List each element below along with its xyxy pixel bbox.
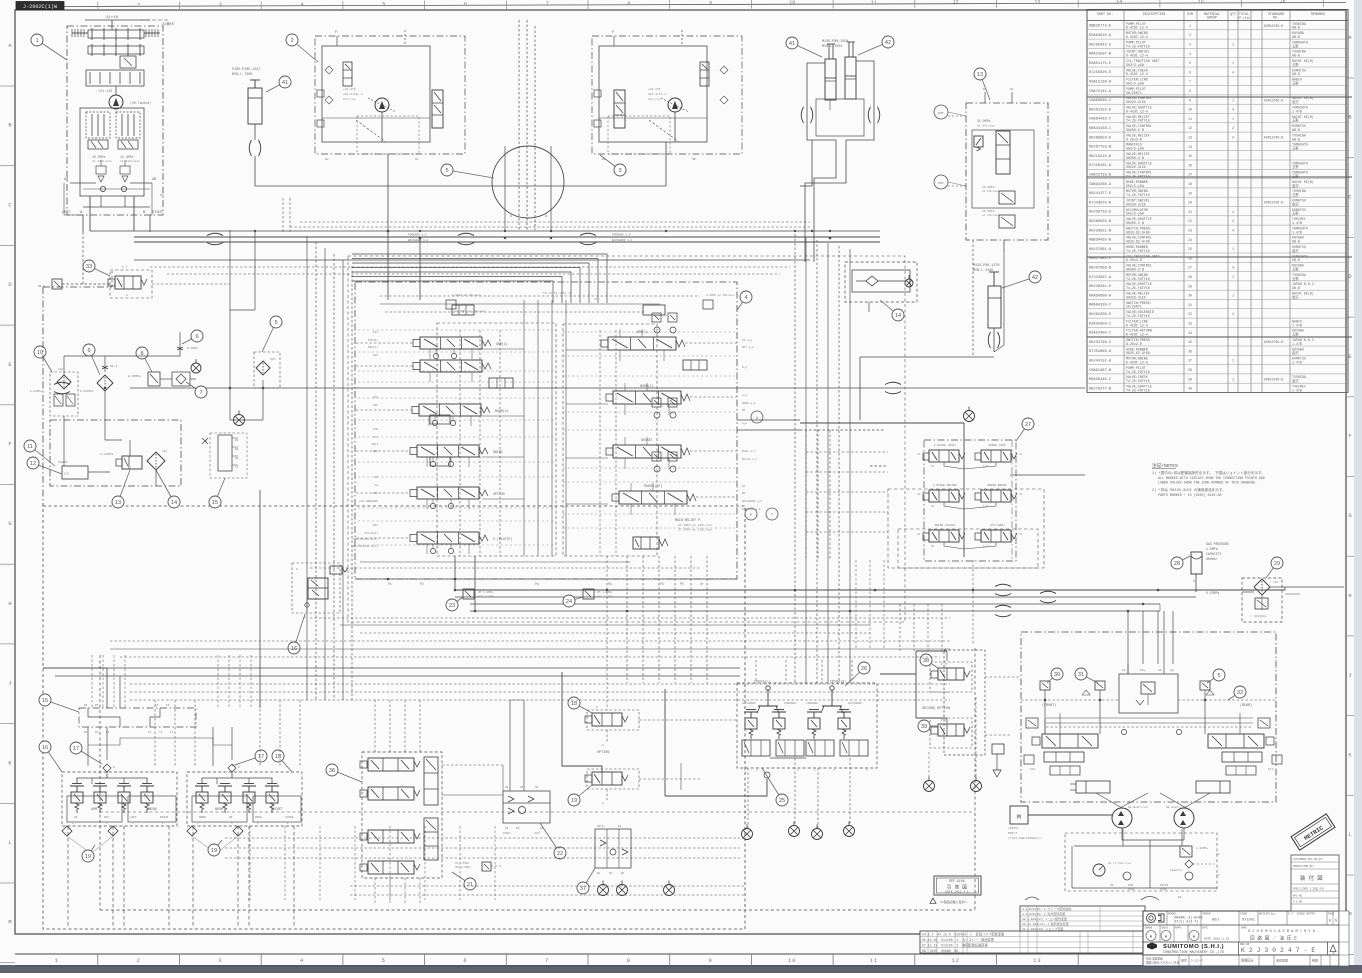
svg-text:SH200-3 B: SH200-3 B	[1126, 221, 1144, 225]
svg-text:金沢: 金沢	[1292, 378, 1299, 383]
svg-text:KBJ33796-C: KBJ33796-C	[1089, 341, 1112, 345]
top-left drawing number box	[16, 2, 64, 11]
node callout 9	[83, 344, 100, 375]
svg-text:11: 11	[1188, 118, 1192, 122]
svg-text:CNA60566-C: CNA60566-C	[1089, 99, 1112, 103]
engine M box	[1008, 806, 1112, 840]
svg-text:SWING LOCK: SWING LOCK	[988, 444, 1006, 447]
svg-text:B2: B2	[325, 158, 329, 161]
svg-text:CNA91487-B: CNA91487-B	[1089, 369, 1112, 373]
svg-text:10A: 10A	[1273, 581, 1279, 584]
svg-text:05.10.26 K11106 1 カースレー・部品変: 05.10.26 K11106 1 カースレー・部品変更	[922, 937, 995, 942]
gauge check box 21	[455, 862, 503, 871]
svg-text:18: 18	[571, 701, 577, 707]
svg-text:T4-25-F9TY10: T4-25-F9TY10	[1126, 379, 1150, 383]
svg-text:AUX: AUX	[373, 354, 378, 357]
svg-text:金沢: 金沢	[1292, 183, 1299, 188]
wire pedal risers	[748, 758, 850, 828]
svg-text:PA5(B): PA5(B)	[368, 338, 378, 342]
svg-text:8: 8	[627, 958, 631, 964]
wire second option feed	[880, 651, 947, 723]
svg-text:C2: C2	[1019, 493, 1023, 496]
svg-text:16: 16	[1279, 0, 1285, 5]
svg-text:2-STAGE (RMV): 2-STAGE (RMV)	[934, 443, 957, 447]
svg-text:(SH.Tandem): (SH.Tandem)	[130, 101, 151, 105]
svg-text:at 85L/min: at 85L/min	[977, 124, 995, 128]
svg-text:7: 7	[1189, 81, 1191, 85]
svg-text:3M 1.0MPa: 3M 1.0MPa	[478, 591, 493, 594]
node callout 6	[182, 330, 203, 344]
svg-text:3M 1.0MPa: 3M 1.0MPa	[597, 591, 612, 594]
svg-text:KHJ44151-A: KHJ44151-A	[1089, 360, 1112, 364]
filter 9 with orifice	[97, 363, 117, 391]
svg-text:KRA64609-A: KRA64609-A	[1089, 294, 1112, 298]
svg-text:1: 1	[35, 38, 38, 44]
svg-text:Ba3: Ba3	[373, 524, 378, 527]
svg-text:DATE 2021.1.31: DATE 2021.1.31	[1204, 938, 1229, 941]
wire MCV center gallery	[460, 300, 616, 556]
parts list table	[1087, 10, 1352, 393]
svg-text:KBJ69853-E: KBJ69853-E	[1089, 136, 1112, 140]
grid row labels right	[1346, 35, 1354, 955]
svg-text:A4: A4	[505, 786, 509, 789]
svg-text:P2: P2	[95, 731, 99, 734]
svg-text:PAT: PAT	[938, 182, 944, 185]
svg-text:SWING CH/OFF: SWING CH/OFF	[935, 523, 956, 527]
svg-text:P: P	[750, 513, 752, 517]
svg-text:P (T: P (T	[941, 662, 948, 666]
svg-text:金沢: 金沢	[1292, 99, 1299, 104]
svg-text:at 212L/min: at 212L/min	[120, 159, 140, 163]
svg-text:FORWARD: FORWARD	[784, 702, 796, 705]
node callout 8	[136, 347, 152, 372]
boundary main control valve box	[355, 282, 737, 579]
svg-text:五野: 五野	[1292, 81, 1299, 86]
svg-text:CODE: CODE	[1240, 913, 1247, 916]
svg-text:MFG NO.: MFG NO.	[1293, 895, 1304, 898]
svg-text:UP: UP	[742, 409, 746, 412]
svg-text:KTJ55020-E: KTJ55020-E	[1089, 71, 1112, 75]
wire drain vertical left	[259, 490, 261, 708]
svg-text:PAGE: PAGE	[1328, 913, 1335, 916]
svg-text:4: 4	[1232, 267, 1234, 271]
check valve 6	[177, 344, 198, 356]
svg-text:42: 42	[1032, 275, 1038, 281]
svg-text:502/5-y5A: 502/5-y5A	[1126, 82, 1144, 86]
travel motor front	[1112, 808, 1132, 828]
MCV left bank small valves	[430, 305, 513, 466]
svg-text:DWG.NO: DWG.NO	[1240, 943, 1250, 946]
svg-text:MA: MA	[415, 158, 419, 161]
svg-text:S7(2) 3(3-T): S7(2) 3(3-T)	[1174, 920, 1198, 925]
svg-text:300cm³: 300cm³	[1206, 557, 1218, 561]
wire center verticals to pedals	[627, 556, 707, 683]
svg-text:(T)21.4kW/2150min⁻¹: (T)21.4kW/2150min⁻¹	[1008, 836, 1042, 840]
svg-text:B7: B7	[742, 485, 746, 488]
svg-text:RIGHT: RIGHT	[503, 832, 511, 835]
svg-text:K 2 J 3 0 2 4 7 - E: K 2 J 3 0 2 4 7 - E	[1241, 947, 1315, 954]
node callout 19	[82, 845, 95, 862]
svg-text:管理区分: 管理区分	[1241, 958, 1255, 963]
svg-text:KHJ39733-E: KHJ39733-E	[1089, 211, 1112, 215]
wire main pump buses	[90, 231, 880, 245]
svg-text:K-4C9C 12-4: K-4C9C 12-4	[1126, 361, 1148, 365]
svg-text:25.9MPa: 25.9MPa	[982, 210, 995, 213]
svg-text:5: 5	[1189, 62, 1191, 66]
svg-text:23: 23	[449, 603, 455, 609]
node callout 42	[858, 36, 894, 55]
svg-text:A1: A1	[1122, 669, 1126, 672]
second option valve lower	[930, 718, 972, 748]
filter 5 line	[254, 352, 280, 388]
svg-text:K-4C9C 12-4: K-4C9C 12-4	[1126, 26, 1148, 30]
wire travel-pedal feeds	[681, 660, 852, 790]
svg-text:1-47B: 1-47B	[1292, 342, 1302, 346]
svg-text:KBJ76277-B: KBJ76277-B	[1089, 387, 1112, 391]
svg-text:32.4MPa: 32.4MPa	[120, 155, 133, 159]
travel pedal valves 25	[665, 679, 877, 796]
svg-text:L: L	[8, 840, 11, 846]
svg-text:金沢: 金沢	[1292, 248, 1299, 253]
svg-text:Pb1(Pa1): Pb1(Pa1)	[365, 531, 379, 535]
svg-text:15: 15	[42, 698, 48, 704]
svg-text:17: 17	[258, 754, 264, 760]
svg-text:246.3/14L-1: 246.3/14L-1	[343, 92, 363, 96]
svg-text:5: 5	[382, 958, 386, 964]
svg-text:J: J	[1348, 673, 1351, 679]
svg-text:9: 9	[708, 958, 712, 964]
svg-text:GROUP: GROUP	[1207, 17, 1217, 21]
svg-text:CLOSE: CLOSE	[285, 816, 294, 819]
svg-text:≈ 1016kPa: ≈ 1016kPa	[1250, 614, 1266, 618]
svg-text:KNJ41377-E: KNJ41377-E	[1089, 192, 1112, 196]
svg-text:AB-B: AB-B	[1292, 286, 1300, 290]
boundary MCV inner left	[437, 323, 556, 556]
svg-text:E3: E3	[1178, 896, 1182, 899]
svg-text:23: 23	[1188, 230, 1192, 234]
svg-text:15: 15	[212, 500, 218, 506]
svg-text:0625-62-9+99: 0625-62-9+99	[1126, 230, 1150, 234]
svg-text:37: 37	[1188, 360, 1192, 364]
svg-text:10A: 10A	[58, 368, 63, 371]
svg-text:KNJ37661-A: KNJ37661-A	[1089, 248, 1112, 252]
wire mid risers to bank36	[375, 700, 503, 795]
arm cylinder right	[973, 264, 1001, 352]
svg-text:A2: A2	[1170, 669, 1174, 672]
node callout 2	[286, 34, 318, 62]
svg-text:13: 13	[1033, 958, 1041, 964]
svg-text:A3: A3	[1216, 874, 1220, 877]
pilot manifold 35	[202, 433, 247, 478]
node callout 16	[288, 614, 305, 654]
thermo box	[58, 461, 110, 479]
svg-text:P.(DELETE): P.(DELETE)	[493, 537, 512, 541]
svg-text:KBB29772-E: KBB29772-E	[1089, 25, 1112, 29]
svg-text:APPR.: APPR.	[1175, 927, 1182, 930]
node callout 25	[762, 768, 788, 806]
pilot pump assembly 2	[315, 30, 465, 161]
wire travel riser bundle	[1128, 611, 1173, 674]
svg-text:SECOND OPTION: SECOND OPTION	[922, 707, 950, 711]
svg-text:GROUP: GROUP	[1202, 913, 1211, 916]
svg-text:XAb1(B)SOL.B(Y): XAb1(B)SOL.B(Y)	[353, 537, 378, 541]
wire MCV feed verticals	[388, 231, 800, 611]
svg-text:a3: a3	[1216, 853, 1220, 856]
svg-text:3: 3	[618, 168, 621, 174]
svg-text:35.9MPa: 35.9MPa	[977, 119, 990, 123]
svg-text:KHR10766-B: KHR10766-B	[1264, 24, 1283, 28]
svg-text:1: 1	[1232, 360, 1234, 364]
svg-text:S5: S5	[520, 786, 524, 789]
wire return capsules	[885, 382, 901, 394]
svg-text:1: 1	[1232, 118, 1234, 122]
svg-text:DRAWN: DRAWN	[1145, 927, 1153, 930]
node callout 19	[208, 840, 222, 856]
svg-text:SH200-3 B: SH200-3 B	[1126, 268, 1144, 272]
node callout 10	[34, 346, 52, 372]
svg-text:AB-B: AB-B	[1292, 258, 1300, 262]
svg-text:Pb8: Pb8	[373, 395, 378, 399]
svg-text:KSA35656-C: KSA35656-C	[1089, 322, 1112, 326]
svg-text:0.03MPa: 0.03MPa	[30, 390, 42, 393]
MCV left bank valves	[410, 337, 512, 544]
svg-text:SH220-3LEX: SH220-3LEX	[1126, 165, 1146, 169]
boundary pilot outer left leg	[43, 287, 112, 506]
svg-text:1-47B: 1-47B	[1292, 323, 1302, 327]
boom cylinders	[801, 40, 880, 140]
svg-text:LEFT: LEFT	[62, 211, 71, 215]
svg-text:DATE: DATE	[1202, 927, 1208, 930]
breather mid	[191, 359, 201, 373]
svg-text:60J: 60J	[1212, 919, 1219, 923]
svg-text:22: 22	[1188, 220, 1192, 224]
wire right area verticals	[900, 560, 973, 651]
wire pilot bus to right	[455, 584, 1285, 617]
svg-text:STR: STR	[270, 358, 275, 361]
svg-text:21+10: 21+10	[106, 16, 119, 20]
svg-text:1: 1	[1232, 378, 1234, 382]
svg-text:K-4C9C 12-4: K-4C9C 12-4	[1126, 72, 1148, 76]
MCV relief small top	[446, 291, 735, 313]
wire bottom dashed laterals	[225, 826, 745, 905]
wire travel box cross lines	[1045, 718, 1253, 735]
svg-text:KHR10766-B: KHR10766-B	[1264, 136, 1283, 140]
svg-text:TRAVEL(L): TRAVEL(L)	[754, 679, 770, 683]
boundary travel unit box	[1021, 632, 1276, 802]
travel brake cylinders	[1070, 781, 1230, 793]
breather pilot area	[234, 411, 245, 426]
joystick unit right (boom/bucket)	[187, 764, 302, 928]
svg-text:19: 19	[211, 848, 217, 854]
svg-text:五野: 五野	[1292, 164, 1299, 169]
MCV port text left	[351, 331, 378, 548]
svg-text:D4: D4	[1110, 884, 1114, 887]
wire bottom left risers	[43, 668, 300, 766]
svg-text:1.5MPa: 1.5MPa	[1206, 547, 1218, 551]
boundary swing dashed box 3	[898, 529, 1038, 568]
svg-text:4: 4	[301, 2, 304, 8]
svg-text:MIN.L 720%: MIN.L 720%	[232, 73, 253, 77]
MCV right bank valves	[601, 330, 696, 504]
node callout 32	[1228, 686, 1246, 700]
svg-text:PILOT: PILOT	[1160, 884, 1169, 887]
svg-text:SWING BRAKE: SWING BRAKE	[987, 484, 1006, 487]
boundary pilot filter box	[50, 420, 181, 486]
svg-text:TRAVEL(R): TRAVEL(R)	[830, 679, 846, 683]
svg-text:A: A	[756, 416, 758, 420]
svg-text:MAIN RELIEF P.: MAIN RELIEF P.	[675, 518, 702, 522]
wire top feeder center	[255, 140, 812, 231]
boundary pilot lower-left box	[43, 506, 745, 929]
svg-text:T4-25-F9TY10: T4-25-F9TY10	[1126, 249, 1150, 253]
node callout 4	[737, 291, 752, 310]
svg-text:506/T: 506/T	[1008, 831, 1017, 835]
node callout 18	[568, 697, 592, 713]
svg-text:2: 2	[1232, 220, 1234, 224]
svg-text:CNA72141-A: CNA72141-A	[1089, 90, 1112, 94]
center swivel circle	[492, 20, 564, 230]
svg-text:WEIGHT(kg): WEIGHT(kg)	[1259, 912, 1276, 916]
svg-text:社名記載製品: 社名記載製品	[1146, 957, 1163, 961]
title block lower row	[1143, 955, 1339, 966]
svg-text:KBJ85642-E: KBJ85642-E	[1089, 43, 1112, 47]
svg-text:PcB: PcB	[373, 428, 378, 431]
orifice R2.9 box	[38, 232, 110, 289]
travel check squares	[1040, 681, 1214, 695]
svg-text:REMARKS: REMARKS	[1311, 13, 1325, 17]
wire right pilot verticals 2	[856, 560, 884, 648]
svg-text:図面の取椀;#25201;い注意: 図面の取椀;#25201;い注意	[1146, 961, 1180, 965]
svg-text:IN a₁8: IN a₁8	[742, 339, 752, 342]
svg-text:B1: B1	[597, 872, 601, 875]
svg-text:24: 24	[566, 599, 572, 605]
svg-text:回 路 図 ／ 油 圧 E: 回 路 図 ／ 油 圧 E	[1250, 935, 1297, 942]
svg-text:SPEC/LINES 1.20目 A/B: SPEC/LINES 1.20目 A/B	[1293, 887, 1325, 891]
svg-text:C1: C1	[917, 453, 921, 456]
valve 7 diamond	[172, 372, 190, 386]
svg-text:T4-25-F9TY10: T4-25-F9TY10	[1126, 44, 1150, 48]
svg-text:1: 1	[1189, 25, 1191, 29]
svg-text:IN: IN	[74, 816, 78, 819]
svg-text:KBB30435-B: KBB30435-B	[1089, 239, 1112, 243]
node callout 16	[39, 741, 62, 772]
wire right vertical bundle	[795, 234, 850, 683]
node callout 39	[918, 720, 938, 732]
svg-text:P.O.NO.: P.O.NO.	[1293, 901, 1304, 904]
svg-text:0.004MPa: 0.004MPa	[80, 390, 94, 393]
svg-text:MIN.L 1024: MIN.L 1024	[822, 45, 842, 49]
svg-text:T4-25-F9TY10: T4-25-F9TY10	[1126, 314, 1150, 318]
boundary MCV inner right	[563, 324, 657, 556]
pilot pump assembly 3	[592, 30, 742, 161]
svg-text:B₅2: B₅2	[742, 366, 747, 369]
node callout 13	[974, 68, 990, 100]
pilot manifold box 15	[79, 704, 196, 734]
wire MCV valve stubs	[427, 329, 675, 554]
svg-text:T4-25-F9TY10: T4-25-F9TY10	[1126, 370, 1150, 374]
svg-text:26/25K71: 26/25K71	[1126, 305, 1142, 309]
svg-text:39: 39	[921, 724, 927, 730]
node callout 42	[1002, 271, 1041, 288]
svg-text:1-47B: 1-47B	[1292, 388, 1302, 392]
shuttle block 37	[595, 824, 631, 875]
svg-text:N: N	[1329, 919, 1331, 923]
svg-text:26/25K71: 26/25K71	[1126, 91, 1142, 95]
svg-text:at 212L/min: at 212L/min	[92, 159, 112, 163]
svg-text:C2: C2	[1019, 453, 1023, 456]
svg-text:41: 41	[282, 80, 288, 86]
svg-text:A1: A1	[1010, 88, 1014, 91]
svg-text:31: 31	[1078, 672, 1084, 678]
svg-text:30: 30	[1054, 672, 1060, 678]
node callout 33	[83, 260, 110, 276]
svg-text:SH220-3LEX: SH220-3LEX	[1126, 202, 1146, 206]
svg-text:29: 29	[1188, 285, 1192, 289]
svg-text:装 付 図: 装 付 図	[1300, 874, 1323, 882]
svg-text:THERMO: THERMO	[58, 461, 68, 464]
svg-text:1: 1	[1232, 62, 1234, 66]
svg-text:KTJ52866-A: KTJ52866-A	[1089, 350, 1112, 354]
svg-text:OUT: OUT	[104, 816, 109, 819]
svg-text:S4: S4	[516, 827, 520, 830]
svg-text:S.O: S.O	[983, 545, 988, 548]
svg-text:6: 6	[463, 958, 467, 964]
svg-text:+34.075: +34.075	[648, 88, 661, 91]
svg-text:P: P	[335, 31, 337, 35]
node callout 41	[266, 76, 291, 92]
svg-text:S6: S6	[535, 786, 539, 789]
svg-text:25.9MPa: 25.9MPa	[982, 186, 995, 189]
svg-text:502/5-y5A: 502/5-y5A	[1126, 184, 1144, 188]
svg-text:AB-B: AB-B	[1292, 128, 1300, 132]
svg-text:KBJ19216-B: KBJ19216-B	[1089, 155, 1112, 159]
svg-text:CONSTRUCTION MACHINERY CO.,LTD: CONSTRUCTION MACHINERY CO.,LTD	[1163, 951, 1224, 955]
svg-text:18: 18	[1188, 183, 1192, 187]
svg-text:K-4C9C 12-4: K-4C9C 12-4	[1126, 323, 1148, 327]
svg-text:KRA17982-C: KRA17982-C	[1089, 257, 1112, 261]
svg-text:KHR10766-B: KHR10766-B	[1264, 340, 1283, 344]
svg-text:16: 16	[42, 745, 48, 751]
node callout 21	[452, 872, 476, 890]
svg-text:A2: A2	[375, 484, 379, 487]
boundary pilot inner box	[100, 648, 975, 910]
boom holding valve box 13	[966, 88, 1048, 252]
svg-text:1: 1	[1232, 99, 1234, 103]
option solenoid valve lower	[585, 769, 639, 805]
svg-text:D1: D1	[235, 439, 239, 442]
svg-text:32: 32	[1188, 313, 1192, 317]
svg-text:1: 1	[1232, 211, 1234, 215]
svg-text:OPTION: OPTION	[493, 492, 505, 496]
svg-text:B: B	[545, 214, 547, 218]
svg-text:40: 40	[1188, 388, 1192, 392]
svg-text:五野: 五野	[1292, 118, 1299, 123]
svg-text:K-4C9C 12-4: K-4C9C 12-4	[1126, 54, 1148, 58]
svg-text:PLUG: PLUG	[1128, 888, 1135, 891]
svg-text:04.6.2 04.10.6 K10426 1 吏田: 04.6.2 04.10.6 K10426 1 吏田バルブ配管変更	[922, 932, 1005, 937]
breather swing	[964, 407, 975, 422]
revision history table	[920, 906, 1145, 953]
svg-text:6: 6	[195, 334, 198, 340]
node callout 23	[446, 597, 463, 611]
svg-text:F: F	[1348, 434, 1351, 440]
svg-text:XBb1/Bb1SOL.B(X): XBb1/Bb1SOL.B(X)	[351, 544, 378, 548]
svg-text:P1: P1	[388, 582, 392, 586]
svg-text:L: L	[1348, 832, 1351, 838]
wire option leads	[562, 556, 737, 796]
svg-text:11: 11	[871, 0, 877, 6]
svg-text:OPEN: OPEN	[255, 816, 262, 819]
